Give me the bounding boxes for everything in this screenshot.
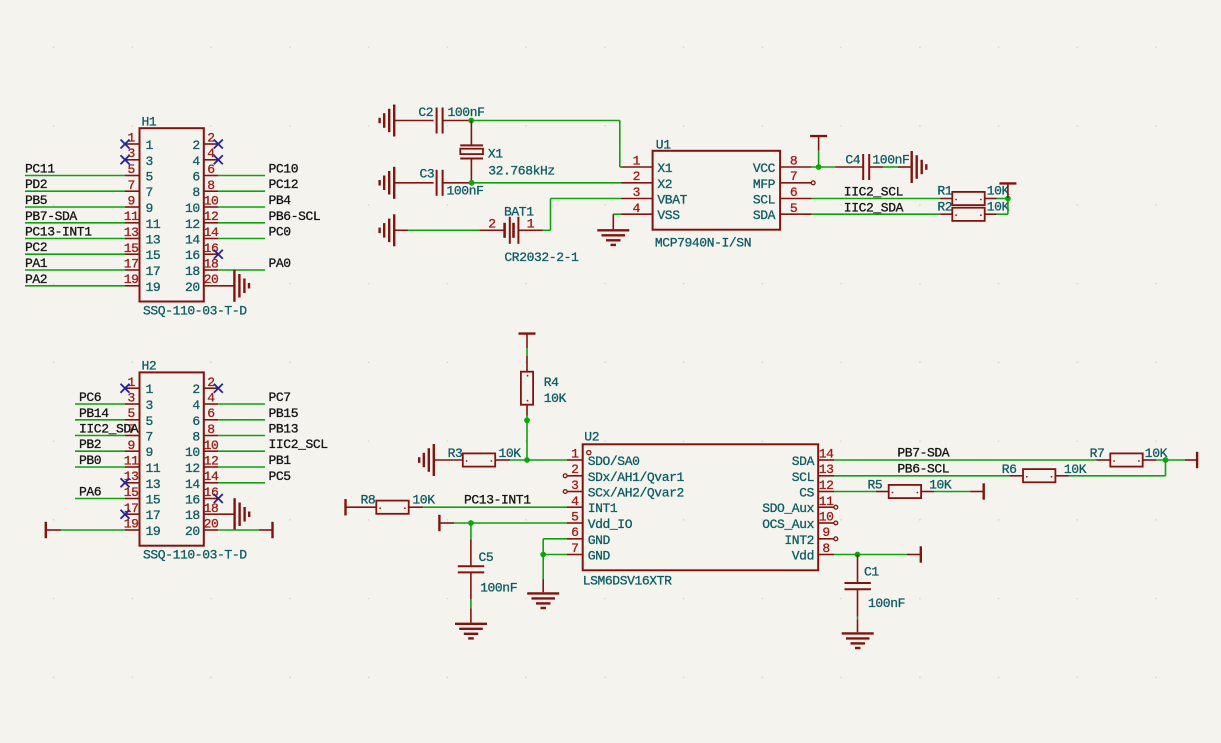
capacitor C5 top lead xyxy=(470,539,472,566)
wire-end bar at Vdd xyxy=(920,546,922,562)
svg-text:2: 2 xyxy=(192,138,199,153)
svg-text:PB0: PB0 xyxy=(79,453,101,468)
H2 pin 14 stub xyxy=(204,482,219,484)
H2 pin 12 stub xyxy=(204,466,219,468)
svg-text:SSQ-110-03-T-D: SSQ-110-03-T-D xyxy=(143,548,247,563)
svg-text:14: 14 xyxy=(185,233,200,248)
svg-text:PB14: PB14 xyxy=(79,406,109,421)
H2 pin 6 stub xyxy=(204,419,219,421)
capacitor C1 top lead xyxy=(857,555,859,583)
junction C3 / X1 bottom xyxy=(469,180,475,186)
svg-text:19: 19 xyxy=(146,524,161,539)
capacitor C4 right lead xyxy=(869,166,883,168)
resistor R2 right lead xyxy=(985,213,997,215)
svg-text:10K: 10K xyxy=(544,391,567,406)
H2 pin 5 stub xyxy=(125,419,140,421)
wire PA1 to H1 pin 17 xyxy=(25,269,125,271)
wire IIC2_SDA to H2 pin 7 xyxy=(75,435,125,437)
svg-text:18: 18 xyxy=(204,257,219,272)
wire R2 to rail xyxy=(997,213,1008,215)
svg-text:13: 13 xyxy=(124,225,139,240)
svg-text:20: 20 xyxy=(185,280,200,295)
svg-text:R4: R4 xyxy=(544,375,559,390)
svg-text:IIC2_SCL: IIC2_SCL xyxy=(844,185,903,200)
svg-text:100nF: 100nF xyxy=(872,153,909,168)
unconnected end at U1 pin 7 MFP xyxy=(811,181,815,185)
junction R3/R4/SDO xyxy=(524,457,530,463)
wire PC2 to H1 pin 15 xyxy=(25,253,125,255)
H2 pin 16 stub xyxy=(204,498,219,500)
svg-text:6: 6 xyxy=(207,162,214,177)
svg-text:X1: X1 xyxy=(488,147,503,162)
svg-text:C1: C1 xyxy=(864,565,879,580)
svg-text:PC11: PC11 xyxy=(25,162,55,177)
wire-end bar at R5 xyxy=(983,483,985,499)
H1 pin 1 stub xyxy=(125,143,140,145)
svg-text:10: 10 xyxy=(204,438,219,453)
svg-text:C2: C2 xyxy=(418,105,433,120)
svg-text:1: 1 xyxy=(146,382,154,397)
svg-text:Vdd_IO: Vdd_IO xyxy=(588,517,633,532)
ground stem xyxy=(470,608,472,622)
svg-text:IIC2_SCL: IIC2_SCL xyxy=(269,437,328,452)
wire PB2 to H2 pin 9 xyxy=(75,450,125,452)
svg-text:100nF: 100nF xyxy=(868,596,905,611)
wire H1 pin 12 to PB6-SCL xyxy=(218,222,265,224)
resistor R7 left lead xyxy=(1096,459,1110,461)
svg-text:PC0: PC0 xyxy=(269,225,291,240)
svg-text:1: 1 xyxy=(571,447,579,462)
svg-text:7: 7 xyxy=(571,541,578,556)
svg-text:20: 20 xyxy=(204,272,219,287)
svg-text:10K: 10K xyxy=(929,478,952,493)
svg-text:U2: U2 xyxy=(584,430,599,445)
wire U2 pin 8 Vdd xyxy=(834,554,907,556)
wire-end bar at Vdd_IO xyxy=(438,515,440,531)
junction GND pins xyxy=(540,552,546,558)
svg-text:12: 12 xyxy=(185,217,200,232)
svg-text:6: 6 xyxy=(192,414,199,429)
U2 pin 10 stub xyxy=(818,522,834,524)
resistor R1 xyxy=(952,192,984,205)
svg-text:PA0: PA0 xyxy=(269,256,291,271)
ground below C1 xyxy=(842,633,874,648)
U2 pin 7 stub xyxy=(567,554,583,556)
H2 pin 9 stub xyxy=(125,450,140,452)
svg-text:R7: R7 xyxy=(1090,446,1105,461)
svg-text:10: 10 xyxy=(204,194,219,209)
svg-text:17: 17 xyxy=(146,264,161,279)
svg-text:PC12: PC12 xyxy=(269,177,299,192)
junction R1/R2 pull-up rail xyxy=(1005,196,1011,202)
wire U1 pin 4 VSS to corner xyxy=(613,213,621,215)
svg-text:PB4: PB4 xyxy=(269,193,292,208)
U1 pin 5 stub xyxy=(780,213,812,215)
svg-text:7: 7 xyxy=(127,178,134,193)
capacitor C1 bottom lead xyxy=(857,590,859,617)
H2 pin 4 stub xyxy=(204,403,219,405)
wire H1 pin 20 to ground xyxy=(218,285,234,287)
resistor R5 left lead xyxy=(876,491,889,493)
resistor R5 xyxy=(889,485,921,498)
wire H1 pin 8 to PC12 xyxy=(218,190,265,192)
no-connect H1 pin 1 xyxy=(121,140,130,149)
svg-text:PC13-INT1: PC13-INT1 xyxy=(25,225,92,240)
wire-end bar at H2 pin 20 xyxy=(271,522,273,538)
wire PB5 to H1 pin 9 xyxy=(25,206,125,208)
svg-text:15: 15 xyxy=(146,493,161,508)
capacitor C3 xyxy=(437,170,443,196)
H1 pin 12 stub xyxy=(204,222,219,224)
wire rail riser vertical xyxy=(1165,460,1167,476)
power flag at U1 VCC xyxy=(810,136,827,167)
svg-text:10: 10 xyxy=(185,445,200,460)
svg-text:SCL: SCL xyxy=(753,193,775,208)
ground at C2 xyxy=(380,105,395,137)
svg-text:PD2: PD2 xyxy=(25,177,47,192)
svg-text:2: 2 xyxy=(207,375,214,390)
U2 pin 13 stub xyxy=(818,475,834,477)
wire R6 to rail riser xyxy=(1069,475,1165,477)
svg-text:16: 16 xyxy=(185,493,200,508)
H2 pin 7 stub xyxy=(125,435,140,437)
svg-text:GND: GND xyxy=(588,533,611,548)
svg-text:2: 2 xyxy=(207,131,214,146)
U2 pin 5 stub xyxy=(567,522,583,524)
svg-text:PC7: PC7 xyxy=(269,390,291,405)
svg-text:SCx/AH2/Qvar2: SCx/AH2/Qvar2 xyxy=(588,486,684,501)
wire-end bar at H2 pin 19 xyxy=(45,522,47,538)
pin-1 indicator circle on U2 xyxy=(587,451,591,455)
resistor R7 xyxy=(1110,453,1142,466)
no-connect H1 pin 4 xyxy=(214,155,223,164)
resistor R6 right lead xyxy=(1055,475,1069,477)
svg-text:3: 3 xyxy=(571,478,578,493)
svg-text:6: 6 xyxy=(192,170,199,185)
resistor R4 xyxy=(521,372,533,405)
svg-text:PB1: PB1 xyxy=(269,453,292,468)
resistor R3 right lead xyxy=(495,459,510,461)
svg-text:10K: 10K xyxy=(1064,462,1087,477)
svg-text:10: 10 xyxy=(185,201,200,216)
wire end lead xyxy=(970,491,984,493)
no-connect H2 pin 1 xyxy=(121,384,130,393)
H1 pin 6 stub xyxy=(204,175,219,177)
H1 pin 11 stub xyxy=(125,222,140,224)
wire ground to C3 xyxy=(394,182,433,184)
svg-text:CS: CS xyxy=(799,486,814,501)
H1 pin 7 stub xyxy=(125,190,140,192)
wire H1 pin 6 to PC10 xyxy=(218,175,265,177)
svg-text:6: 6 xyxy=(790,185,797,200)
no-connect H2 pin 2 xyxy=(214,384,223,393)
svg-text:IIC2_SDA: IIC2_SDA xyxy=(844,200,904,215)
svg-text:5: 5 xyxy=(146,170,153,185)
svg-text:4: 4 xyxy=(571,494,579,509)
wire down to U1 pin 1 (vertical) xyxy=(619,121,621,168)
svg-text:10: 10 xyxy=(819,510,834,525)
svg-text:11: 11 xyxy=(124,209,139,224)
unconnected end at U2 pin 2 xyxy=(563,474,567,478)
H1 pin 14 stub xyxy=(204,238,219,240)
svg-text:C3: C3 xyxy=(420,167,435,182)
svg-text:11: 11 xyxy=(146,217,161,232)
svg-text:9: 9 xyxy=(127,438,134,453)
svg-text:6: 6 xyxy=(207,406,214,421)
power flag above R4 xyxy=(519,334,536,356)
wire U2 pin 13 SCL to R6 xyxy=(834,475,1009,477)
ground at H2 pin 18 xyxy=(235,498,250,530)
svg-text:IIC2_SDA: IIC2_SDA xyxy=(79,422,139,437)
svg-text:PB6-SCL: PB6-SCL xyxy=(897,461,949,476)
svg-text:7: 7 xyxy=(790,169,797,184)
junction R6/R7 rail xyxy=(1163,457,1169,463)
svg-text:100nF: 100nF xyxy=(447,184,484,199)
U1 pin 7 stub xyxy=(780,182,812,184)
wire BAT1 to corner xyxy=(543,229,551,231)
svg-text:3: 3 xyxy=(146,154,153,169)
svg-text:6: 6 xyxy=(571,525,578,540)
wire junction to SDO row xyxy=(526,420,528,460)
U1 pin 1 stub xyxy=(621,166,653,168)
resistor R3 xyxy=(463,453,495,466)
IC U2 LSM6DSV16XTR body xyxy=(583,444,819,570)
resistor R6 left lead xyxy=(1009,475,1023,477)
svg-text:14: 14 xyxy=(819,447,834,462)
wire H1 pin 10 to PB4 xyxy=(218,206,265,208)
svg-text:1: 1 xyxy=(127,131,135,146)
svg-text:5: 5 xyxy=(571,510,578,525)
wire Vdd_IO lead xyxy=(439,522,454,524)
svg-text:19: 19 xyxy=(146,280,161,295)
svg-text:13: 13 xyxy=(819,462,834,477)
resistor R1 right lead xyxy=(985,198,997,200)
svg-text:Vdd: Vdd xyxy=(792,549,814,564)
H2 pin 15 stub xyxy=(125,498,140,500)
resistor R4 bottom lead xyxy=(526,405,528,416)
svg-text:1: 1 xyxy=(127,375,135,390)
U1 pin 3 stub xyxy=(621,198,653,200)
wire H1 pin 18 to PA0 xyxy=(218,269,265,271)
svg-text:10K: 10K xyxy=(499,446,522,461)
svg-text:R8: R8 xyxy=(361,493,376,508)
svg-text:14: 14 xyxy=(185,477,200,492)
H1 pin 20 stub xyxy=(204,285,219,287)
U1 pin 6 stub xyxy=(780,198,812,200)
H2 pin 19 stub xyxy=(125,529,140,531)
svg-text:INT2: INT2 xyxy=(784,533,814,548)
svg-text:4: 4 xyxy=(192,154,200,169)
svg-text:13: 13 xyxy=(146,477,161,492)
H1 pin 10 stub xyxy=(204,206,219,208)
svg-text:10K: 10K xyxy=(987,200,1010,215)
junction Vdd / C1 xyxy=(855,552,861,558)
H1 pin 18 stub xyxy=(204,269,219,271)
svg-text:2: 2 xyxy=(571,462,578,477)
svg-text:GND: GND xyxy=(588,549,611,564)
svg-text:H1: H1 xyxy=(142,114,157,129)
wire PB14 to H2 pin 5 xyxy=(75,419,125,421)
wire H2 pin 12 to PB1 xyxy=(218,466,265,468)
ground at U1 VSS xyxy=(597,230,629,245)
svg-text:PB6-SCL: PB6-SCL xyxy=(269,209,321,224)
svg-text:SDx/AH1/Qvar1: SDx/AH1/Qvar1 xyxy=(588,470,685,485)
H1 pin 13 stub xyxy=(125,238,140,240)
svg-text:PA6: PA6 xyxy=(79,485,101,500)
wire U2 pin 14 SDA to R7 xyxy=(834,459,1096,461)
U2 pin 9 stub xyxy=(818,538,834,540)
svg-text:13: 13 xyxy=(146,233,161,248)
svg-text:12: 12 xyxy=(185,461,200,476)
svg-text:PC10: PC10 xyxy=(269,162,299,177)
svg-text:C5: C5 xyxy=(479,550,494,565)
svg-text:PC6: PC6 xyxy=(79,390,101,405)
svg-text:18: 18 xyxy=(185,508,200,523)
svg-text:16: 16 xyxy=(204,241,219,256)
capacitor C4 xyxy=(863,154,869,180)
H1 pin 17 stub xyxy=(125,269,140,271)
no-connect H2 pin 17 xyxy=(121,510,130,519)
ground at C4 xyxy=(912,151,927,183)
wire H2 pin 18 to ground xyxy=(218,513,234,515)
ground at H1 pin 20 xyxy=(234,270,249,302)
H2 pin 8 stub xyxy=(204,435,219,437)
ground below U2 GND pins xyxy=(527,593,559,608)
H1 pin 9 stub xyxy=(125,206,140,208)
svg-text:12: 12 xyxy=(204,454,219,469)
resistor R8 xyxy=(376,501,408,514)
resistor R1 left lead xyxy=(940,198,952,200)
svg-text:PB15: PB15 xyxy=(269,406,299,421)
U1 pin 2 stub xyxy=(621,182,653,184)
junction Vdd_IO / C5 xyxy=(468,520,474,526)
wire PB0 to H2 pin 11 xyxy=(75,466,125,468)
wire U1 pin 6 SCL to R1 xyxy=(812,198,941,200)
junction below R4 xyxy=(524,417,530,423)
svg-text:100nF: 100nF xyxy=(480,580,517,595)
svg-text:14: 14 xyxy=(204,225,219,240)
H2 pin 13 stub xyxy=(125,482,140,484)
svg-text:2: 2 xyxy=(488,216,495,231)
crystal X1 xyxy=(460,121,483,183)
svg-text:20: 20 xyxy=(185,524,200,539)
svg-text:19: 19 xyxy=(124,517,139,532)
wire PA6 to H2 pin 15 xyxy=(75,498,125,500)
svg-text:R6: R6 xyxy=(1002,462,1017,477)
wire PD2 to H1 pin 7 xyxy=(25,190,125,192)
connector H2 SSQ-110-03-T-D xyxy=(140,372,204,545)
svg-text:1: 1 xyxy=(146,138,154,153)
svg-text:VCC: VCC xyxy=(753,161,776,176)
svg-text:12: 12 xyxy=(819,478,834,493)
unconnected end at U2 pin 9 xyxy=(834,537,838,541)
svg-text:PA1: PA1 xyxy=(25,256,48,271)
svg-text:2: 2 xyxy=(633,169,640,184)
capacitor C1 xyxy=(845,583,871,589)
junction VCC xyxy=(816,164,822,170)
svg-text:X2: X2 xyxy=(657,177,672,192)
wire R7 to rail xyxy=(1156,459,1185,461)
H1 pin 5 stub xyxy=(125,175,140,177)
svg-text:8: 8 xyxy=(822,541,829,556)
svg-text:15: 15 xyxy=(146,248,161,263)
wire to U2 pin 5 Vdd_IO xyxy=(454,522,567,524)
wire U2 pin 6 GND xyxy=(543,538,567,540)
wire U2 pin 12 CS to R5 xyxy=(834,491,876,493)
svg-text:12: 12 xyxy=(204,209,219,224)
capacitor C5 bottom lead xyxy=(470,572,472,599)
svg-text:8: 8 xyxy=(192,430,199,445)
battery BAT1 pin 1 lead xyxy=(518,229,542,231)
wire H2 pin 20 xyxy=(218,529,259,531)
wire PC13-INT1 to H1 pin 13 xyxy=(25,238,125,240)
svg-text:SDO_Aux: SDO_Aux xyxy=(762,501,814,516)
svg-text:11: 11 xyxy=(146,461,161,476)
svg-text:4: 4 xyxy=(192,398,200,413)
H2 pin 10 stub xyxy=(204,450,219,452)
wire H2 pin 4 to PC7 xyxy=(218,403,265,405)
wire ground to BAT1 lead xyxy=(394,229,408,231)
resistor R5 right lead xyxy=(921,491,934,493)
H2 pin 2 stub xyxy=(204,387,219,389)
wire up to VBAT row xyxy=(550,199,552,231)
wire PB7-SDA to H1 pin 11 xyxy=(25,222,125,224)
svg-text:VSS: VSS xyxy=(657,208,680,223)
H2 pin 18 stub xyxy=(204,513,219,515)
wire PA2 to H1 pin 19 xyxy=(25,285,125,287)
capacitor C5 xyxy=(458,566,484,572)
svg-text:U1: U1 xyxy=(656,137,671,152)
svg-text:R3: R3 xyxy=(448,446,463,461)
svg-text:16: 16 xyxy=(185,248,200,263)
wire R5 to end bar xyxy=(934,491,970,493)
no-connect H2 pin 16 xyxy=(214,494,223,503)
svg-text:R5: R5 xyxy=(868,478,883,493)
resistor R2 left lead xyxy=(940,213,952,215)
svg-text:11: 11 xyxy=(819,494,834,509)
wire C1 to ground xyxy=(857,617,859,620)
wire C4 to ground xyxy=(883,166,898,168)
resistor R6 xyxy=(1023,469,1055,482)
wire C3 to junction xyxy=(443,182,470,184)
svg-text:PB7-SDA: PB7-SDA xyxy=(897,446,949,461)
wire rail lead xyxy=(1185,459,1197,461)
svg-text:18: 18 xyxy=(185,264,200,279)
svg-text:100nF: 100nF xyxy=(448,105,485,120)
wire R8 to U2 pin 4 INT1 xyxy=(423,506,567,508)
svg-text:PB13: PB13 xyxy=(269,422,299,437)
svg-text:2: 2 xyxy=(192,382,199,397)
svg-text:5: 5 xyxy=(146,414,153,429)
resistor R2 xyxy=(952,208,984,221)
svg-text:3: 3 xyxy=(633,185,640,200)
wire Vdd end lead xyxy=(907,554,921,556)
ground stem xyxy=(542,579,544,592)
svg-text:PB2: PB2 xyxy=(79,437,101,452)
U2 pin 1 stub xyxy=(567,459,583,461)
wire to U1 pin 3 VBAT xyxy=(551,198,622,200)
wire H1 pin 14 to PC0 xyxy=(218,238,265,240)
connector H1 SSQ-110-03-T-D xyxy=(140,128,204,301)
svg-text:17: 17 xyxy=(124,257,139,272)
U2 pin 2 stub xyxy=(567,475,583,477)
wire R3 to U2 pin 1 xyxy=(510,459,567,461)
svg-text:17: 17 xyxy=(146,508,161,523)
wire H2 pin 19 xyxy=(61,529,125,531)
wire junction down to C5 xyxy=(470,523,472,539)
svg-text:PC5: PC5 xyxy=(269,469,291,484)
H2 pin 20 stub xyxy=(204,529,219,531)
